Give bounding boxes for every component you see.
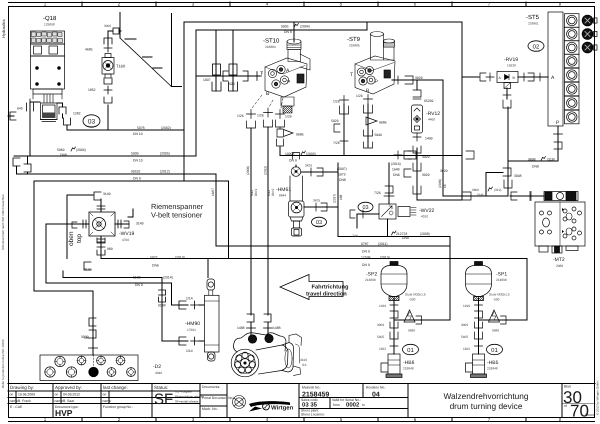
svg-text:DN8: DN8 xyxy=(477,193,484,197)
wire motor port stubs xyxy=(250,322,252,336)
svg-text:Revision No.:: Revision No.: xyxy=(366,386,386,390)
wire 5909 (2005) return to tank line xyxy=(14,155,196,157)
svg-text:70: 70 xyxy=(570,402,589,421)
svg-text:9686: 9686 xyxy=(379,121,387,125)
svg-text:(2011): (2011) xyxy=(378,242,388,246)
svg-text:3029: 3029 xyxy=(422,173,430,177)
svg-text:DN8: DN8 xyxy=(339,178,346,182)
svg-text:B: B xyxy=(366,88,370,94)
svg-text:1852: 1852 xyxy=(88,88,96,92)
svg-text:HE=Vorgabe: HE=Vorgabe xyxy=(175,390,192,394)
svg-text:3029: 3029 xyxy=(422,155,430,159)
wire ST9 P to RV19 net xyxy=(392,79,443,81)
svg-text:5405: 5405 xyxy=(461,335,468,339)
wire WV19 bottom xyxy=(100,236,102,259)
svg-text:HVP: HVP xyxy=(55,408,73,418)
svg-text:-SP2: -SP2 xyxy=(366,272,377,278)
svg-text:DN 9: DN 9 xyxy=(254,189,258,196)
arrow Fahrtrichtung travel direction xyxy=(280,275,343,300)
svg-text:218848: 218848 xyxy=(487,367,498,371)
svg-text:(2007): (2007) xyxy=(337,167,347,171)
svg-text:3149: 3149 xyxy=(136,222,144,226)
wire MT2 feed xyxy=(510,195,544,197)
relief valve at SP1 xyxy=(489,310,507,324)
svg-text:5978: 5978 xyxy=(137,126,145,130)
svg-text:218848: 218848 xyxy=(403,367,414,371)
fittings WV19 bottom xyxy=(97,238,105,243)
svg-text:(2016): (2016) xyxy=(391,162,401,166)
svg-text:-HB6: -HB6 xyxy=(403,360,415,366)
wire HM61 top link xyxy=(301,171,338,173)
svg-text:-ST10: -ST10 xyxy=(263,38,280,45)
svg-text:213898: 213898 xyxy=(365,278,376,282)
svg-text:3029: 3029 xyxy=(415,76,423,80)
svg-text:DN 10: DN 10 xyxy=(133,159,143,163)
svg-text:on: on xyxy=(103,393,107,397)
svg-text:Approved by:: Approved by: xyxy=(55,385,82,390)
fitting 3006 tank line xyxy=(113,28,119,34)
svg-text:4010: 4010 xyxy=(421,215,428,219)
fittings D2 drop xyxy=(89,318,96,326)
svg-text:A: A xyxy=(551,75,555,81)
svg-text:(2004): (2004) xyxy=(300,25,310,29)
svg-text:SF: SF xyxy=(154,391,173,408)
svg-text:Sheet Location:: Sheet Location: xyxy=(301,413,325,417)
svg-text:A: A xyxy=(286,68,290,74)
wire down to MT2 xyxy=(443,107,508,196)
svg-text:1/26: 1/26 xyxy=(356,94,363,98)
svg-text:65269: 65269 xyxy=(424,99,434,103)
wire T160 to tank xyxy=(108,31,113,45)
svg-text:Walzendrehvorrichtung: Walzendrehvorrichtung xyxy=(443,391,528,401)
fitting WV19 top xyxy=(94,192,101,200)
svg-text:5022: 5022 xyxy=(150,256,158,260)
svg-text:drum turning device: drum turning device xyxy=(450,401,523,411)
wire 212723 (2008) xyxy=(338,236,450,238)
fittings: ST10 lower cross row xyxy=(247,73,563,201)
svg-text:3006: 3006 xyxy=(104,24,111,28)
svg-text:4685: 4685 xyxy=(85,48,93,52)
WV22 left fittings xyxy=(350,210,373,218)
title block grid xyxy=(8,384,595,418)
wire T160 drop xyxy=(107,105,109,130)
badge 03 HM61 xyxy=(312,217,327,227)
svg-text:B. Frank: B. Frank xyxy=(18,399,31,403)
svg-text:T: T xyxy=(350,72,353,78)
svg-text:(2008): (2008) xyxy=(420,232,430,236)
svg-text:SF=serial release: SF=serial release xyxy=(175,400,199,404)
svg-text:218861: 218861 xyxy=(528,22,539,26)
svg-text:129898: 129898 xyxy=(44,23,55,27)
wire WV19 left port / HM90 top net xyxy=(46,224,188,305)
svg-text:-MT2: -MT2 xyxy=(553,257,565,263)
RV19 wire fittings xyxy=(486,73,494,81)
bus (2011) 0787 xyxy=(216,245,450,247)
svg-text:2158459: 2158459 xyxy=(302,391,329,398)
labels: wire tags left area xyxy=(17,48,281,354)
fittings HM90 ports xyxy=(191,301,199,309)
svg-text:5183: 5183 xyxy=(133,276,141,280)
fitting 645 xyxy=(27,99,34,111)
cylinder HM90 xyxy=(205,279,220,361)
fittings motor lines xyxy=(247,314,254,322)
svg-text:DN9: DN9 xyxy=(402,236,409,240)
svg-text:Trommel: Trommel xyxy=(532,50,540,53)
svg-text:1499: 1499 xyxy=(463,304,470,308)
wire SP1 relief out riser xyxy=(479,259,528,321)
wire feed risers xyxy=(215,30,217,91)
svg-text:Mach. No.:: Mach. No.: xyxy=(202,407,218,411)
svg-text:(2003): (2003) xyxy=(306,152,316,156)
filter T160 xyxy=(102,54,114,79)
valve RV19 xyxy=(497,72,518,89)
wire tank return riser xyxy=(196,22,367,156)
svg-text:1648: 1648 xyxy=(392,168,400,172)
fitting T160 bottom xyxy=(104,78,112,84)
svg-text:9898: 9898 xyxy=(528,158,536,162)
svg-text:10008: 10008 xyxy=(285,152,295,156)
fittings left chain xyxy=(13,158,20,166)
subsystem box B1 (valve group) xyxy=(184,22,462,181)
fittings ST9 chains xyxy=(340,96,349,105)
wire (2017) vertical xyxy=(337,163,339,237)
svg-text:DN 9: DN 9 xyxy=(289,159,297,163)
wire WV22 down to 2008 xyxy=(387,219,389,237)
wire RV12 top xyxy=(416,80,418,90)
svg-text:989: 989 xyxy=(107,247,113,251)
svg-text:-SP1: -SP1 xyxy=(496,272,507,278)
wire ST9 down chain 2 xyxy=(367,104,369,147)
svg-text:travel direction: travel direction xyxy=(306,291,347,298)
svg-text:0905: 0905 xyxy=(281,25,289,29)
wire y155 link xyxy=(280,77,479,156)
svg-text:1822: 1822 xyxy=(463,347,470,351)
svg-text:218885: 218885 xyxy=(349,44,360,48)
motor-pump unit Q18 xyxy=(31,31,65,99)
MT2 route fittings xyxy=(463,192,471,200)
svg-text:9806: 9806 xyxy=(472,188,479,192)
svg-text:1499: 1499 xyxy=(379,304,386,308)
wire HM61 top stub xyxy=(295,165,297,167)
svg-text:0148: 0148 xyxy=(158,304,166,308)
wire HM61 body link xyxy=(304,206,338,208)
wire motor right xyxy=(267,127,269,315)
svg-text:name: name xyxy=(103,399,112,403)
svg-text:to: to xyxy=(362,403,365,407)
svg-text:(2004): (2004) xyxy=(76,148,86,152)
svg-text:3029: 3029 xyxy=(440,169,448,173)
svg-text:-RV19: -RV19 xyxy=(504,57,518,63)
svg-text:04.09.2012: 04.09.2012 xyxy=(63,393,80,397)
brake HB5 xyxy=(466,332,487,378)
WV19 port fittings xyxy=(97,206,105,242)
wire SP2 chain xyxy=(393,298,395,320)
SP2 fittings xyxy=(390,301,398,328)
svg-text:Documents:: Documents: xyxy=(202,385,220,389)
wire HB5 chain xyxy=(478,320,480,354)
svg-text:DN 8: DN 8 xyxy=(284,30,292,34)
svg-text:DN 9: DN 9 xyxy=(271,189,275,196)
filter 9686 below ST10 xyxy=(279,127,281,129)
svg-text:(2002): (2002) xyxy=(161,126,171,130)
svg-text:DN 10: DN 10 xyxy=(133,132,143,136)
svg-text:DN 9: DN 9 xyxy=(133,177,141,181)
svg-text:DN6: DN6 xyxy=(152,264,159,268)
valve RV12 xyxy=(412,105,423,133)
svg-text:T160: T160 xyxy=(116,64,126,69)
svg-text:3008: 3008 xyxy=(514,174,522,178)
logo PCD emblem xyxy=(233,396,246,409)
svg-text:Valid for Serial No.:: Valid for Serial No.: xyxy=(332,398,361,402)
svg-text:-ST5: -ST5 xyxy=(526,14,540,21)
MT2 feed fittings xyxy=(511,192,535,201)
svg-text:(2017): (2017) xyxy=(333,194,337,203)
wire 5183 (2014) HM90 bottom net xyxy=(63,271,188,341)
svg-text:B. Saar: B. Saar xyxy=(63,399,75,403)
svg-text:01: 01 xyxy=(491,347,498,354)
ST5 P chain xyxy=(554,130,563,139)
svg-text:8844: 8844 xyxy=(279,194,286,198)
svg-text:1/14: 1/14 xyxy=(186,349,193,353)
svg-text:188: 188 xyxy=(339,194,343,200)
svg-text:-WV19: -WV19 xyxy=(119,231,135,237)
svg-text:4610: 4610 xyxy=(300,358,307,362)
fitting 1282 xyxy=(59,107,66,114)
manifold D2 xyxy=(40,355,138,381)
svg-text:9686: 9686 xyxy=(492,329,499,333)
svg-text:1488: 1488 xyxy=(273,326,281,330)
svg-text:645: 645 xyxy=(17,107,23,111)
svg-text:19.06.2009: 19.06.2009 xyxy=(18,393,35,397)
svg-text:on: on xyxy=(55,393,59,397)
svg-text:Fahrtrichtung: Fahrtrichtung xyxy=(312,284,349,291)
svg-text:(2005): (2005) xyxy=(160,152,170,156)
svg-text:P: P xyxy=(556,120,560,126)
filter chain below ST10-B to y155 xyxy=(277,139,284,146)
svg-text:top: top xyxy=(76,234,83,243)
svg-text:7/26: 7/26 xyxy=(333,141,340,145)
svg-text:(2036): (2036) xyxy=(438,179,442,188)
accumulator SP2 xyxy=(381,262,407,301)
svg-text:DN 9: DN 9 xyxy=(135,283,143,287)
HM61 fittings xyxy=(293,153,328,212)
svg-text:0002: 0002 xyxy=(346,401,360,408)
svg-text:Hydraulics: Hydraulics xyxy=(1,19,6,38)
svg-text:929: 929 xyxy=(229,82,235,86)
svg-text:4460: 4460 xyxy=(428,118,435,122)
wire HM90 ports join xyxy=(199,304,204,306)
SP1 fittings xyxy=(475,301,483,328)
svg-text:-RV12: -RV12 xyxy=(426,111,440,117)
svg-text:Portal Document No.:: Portal Document No.: xyxy=(202,396,234,400)
wire 99532 (2012) xyxy=(17,174,217,246)
svg-text:4040: 4040 xyxy=(155,371,162,375)
relief valve at SP2 xyxy=(404,310,422,324)
svg-text:1/14: 1/14 xyxy=(186,297,193,301)
accumulator SP1 xyxy=(466,262,492,301)
wire HM90 top drop xyxy=(207,259,209,278)
svg-text:03: 03 xyxy=(362,205,368,211)
brake HB6 xyxy=(381,332,402,378)
svg-text:02: 02 xyxy=(533,44,540,51)
filter 9686 ST9 xyxy=(366,117,377,125)
svg-text:Sales code: Sales code xyxy=(301,398,318,402)
svg-text:7/26: 7/26 xyxy=(374,191,381,195)
wire staircase branch xyxy=(486,173,503,196)
bus (2013) 5022 WV19 to SP1 xyxy=(101,258,527,260)
svg-text:4760: 4760 xyxy=(122,238,129,242)
wire WV19 right port xyxy=(115,223,129,225)
svg-text:213898: 213898 xyxy=(496,278,507,282)
svg-text:B: B xyxy=(513,76,516,80)
drum turning motor xyxy=(231,333,301,377)
svg-text:16/07: 16/07 xyxy=(211,188,215,196)
svg-text:1/26: 1/26 xyxy=(333,100,340,104)
svg-text:Material No.:: Material No.: xyxy=(302,386,321,390)
svg-text:(318): (318) xyxy=(547,158,555,162)
svg-text:1822: 1822 xyxy=(379,347,386,351)
wire SP1 chain xyxy=(478,298,480,320)
valve ST10 pictorial xyxy=(265,39,310,113)
svg-text:P: P xyxy=(375,79,379,85)
svg-text:17601: 17601 xyxy=(187,328,196,332)
svg-text:6973: 6973 xyxy=(338,173,346,177)
svg-text:99532: 99532 xyxy=(131,170,141,174)
wire HB6 chain xyxy=(393,320,395,354)
svg-text:-HB5: -HB5 xyxy=(487,360,499,366)
svg-text:03 35: 03 35 xyxy=(302,402,318,409)
Riemenspanner label xyxy=(151,202,204,220)
svg-text:Schutzvermerk nach ISO 16016 b: Schutzvermerk nach ISO 16016 beachten xyxy=(1,194,5,250)
ST10 dashed links xyxy=(252,95,283,108)
wire WV19 top 3149 xyxy=(100,199,102,212)
svg-text:(2006): (2006) xyxy=(246,166,250,175)
svg-text:P: P xyxy=(287,80,291,86)
svg-text:7/26: 7/26 xyxy=(352,234,358,238)
svg-text:PF=prototype release: PF=prototype release xyxy=(175,395,204,399)
svg-text:A: A xyxy=(499,76,502,80)
labels: wire tags center/right xyxy=(237,24,555,268)
valve WV22 xyxy=(379,186,416,219)
svg-text:1/26: 1/26 xyxy=(237,114,244,118)
pump below Q18 xyxy=(41,95,58,122)
wire (2013) upper branch xyxy=(34,181,229,259)
svg-text:Drawing by:: Drawing by: xyxy=(10,385,34,390)
svg-text:5946: 5946 xyxy=(375,133,383,137)
svg-text:1007: 1007 xyxy=(203,78,211,82)
wire RV12 tail to MT2 riser xyxy=(417,148,462,200)
svg-text:oben: oben xyxy=(68,231,75,246)
connector block ST5 xyxy=(548,12,597,126)
svg-text:16928: 16928 xyxy=(507,64,516,68)
svg-text:Function group No.:: Function group No.: xyxy=(103,405,133,409)
svg-text:16: 16 xyxy=(443,184,447,188)
wire ST10 T-port left xyxy=(196,75,260,77)
fitting T160 top xyxy=(104,44,112,52)
svg-text:5405: 5405 xyxy=(377,335,384,339)
svg-text:04: 04 xyxy=(372,391,380,398)
wire RV19 below xyxy=(506,88,508,99)
svg-text:last change:: last change: xyxy=(103,385,128,390)
svg-text:5969: 5969 xyxy=(57,148,65,152)
valve ST9 pictorial xyxy=(355,32,395,95)
badge 02 xyxy=(528,41,544,51)
svg-text:from: from xyxy=(333,403,340,407)
svg-text:0787: 0787 xyxy=(361,242,369,246)
svg-text:(319): (319) xyxy=(494,188,501,192)
svg-text:DN 9: DN 9 xyxy=(362,263,370,267)
cylinder HM61 xyxy=(289,167,305,236)
long left wire to D2 xyxy=(34,181,93,355)
svg-text:9686: 9686 xyxy=(296,133,304,137)
wire ST9 down chain 1 xyxy=(343,104,345,156)
svg-text:Stute M33x1.5: Stute M33x1.5 xyxy=(489,293,510,297)
svg-text:DN 9: DN 9 xyxy=(362,250,370,254)
tank xyxy=(120,12,181,86)
svg-text:(2013): (2013) xyxy=(175,256,185,260)
wire WV22 left port xyxy=(357,214,379,228)
svg-text:5909: 5909 xyxy=(131,152,139,156)
svg-text:V-belt tensioner: V-belt tensioner xyxy=(151,211,203,220)
wire RV19 right to ST5 xyxy=(518,76,548,78)
svg-text:name: name xyxy=(10,399,19,403)
svg-text:name: name xyxy=(55,399,64,403)
manifold MT2 xyxy=(535,192,585,254)
valve WV19 xyxy=(72,203,129,242)
svg-text:3425: 3425 xyxy=(305,164,312,168)
wire ST10 solenoid top (2004) xyxy=(293,22,295,42)
badge 03 WV22 xyxy=(358,202,373,212)
ST9 P-port wire fittings xyxy=(394,76,402,84)
svg-text:-500: -500 xyxy=(493,298,500,302)
svg-text:© 2012 by Wirtgen GmbH: © 2012 by Wirtgen GmbH xyxy=(596,381,600,415)
badge 03 (pump circuit) xyxy=(83,115,100,127)
svg-text:Trommel: Trommel xyxy=(315,225,323,228)
svg-text:-HM61: -HM61 xyxy=(276,187,291,193)
svg-text:3149: 3149 xyxy=(84,268,92,272)
svg-text:-D2: -D2 xyxy=(153,364,161,370)
svg-text:9686: 9686 xyxy=(408,329,415,333)
svg-text:3009: 3009 xyxy=(81,335,89,339)
RV12 chain fittings xyxy=(413,90,421,97)
wire SP2 relief out riser xyxy=(394,237,450,321)
wire left border stub xyxy=(8,115,14,117)
svg-text:-500: -500 xyxy=(409,298,416,302)
svg-text:on: on xyxy=(10,393,14,397)
title block texts xyxy=(10,385,168,390)
svg-text:1282: 1282 xyxy=(73,112,81,116)
wire 5978 (2002) pump pressure line xyxy=(67,129,184,131)
svg-text:E - CAE: E - CAE xyxy=(10,405,23,409)
svg-text:DN8: DN8 xyxy=(60,153,67,157)
wire motor left xyxy=(250,128,252,315)
svg-text:3009: 3009 xyxy=(377,323,384,327)
svg-text:(2013): (2013) xyxy=(380,256,390,260)
svg-text:DN6: DN6 xyxy=(393,173,400,177)
svg-text:-HM90: -HM90 xyxy=(185,321,200,327)
svg-text:/16: /16 xyxy=(302,363,307,367)
svg-text:(2012): (2012) xyxy=(160,170,170,174)
svg-text:17538: 17538 xyxy=(361,256,371,260)
svg-text:3425: 3425 xyxy=(313,199,320,203)
svg-text:Wirtgen: Wirtgen xyxy=(271,405,294,412)
fittings 1007 T-line cluster xyxy=(213,64,221,75)
svg-text:5929: 5929 xyxy=(331,119,339,123)
svg-text:1499: 1499 xyxy=(425,137,433,141)
wire (2036) vertical xyxy=(442,80,444,196)
svg-text:Refer to protection notice ISO: Refer to protection notice ISO 16016 xyxy=(1,339,5,388)
wire ST5-P return xyxy=(508,126,558,161)
